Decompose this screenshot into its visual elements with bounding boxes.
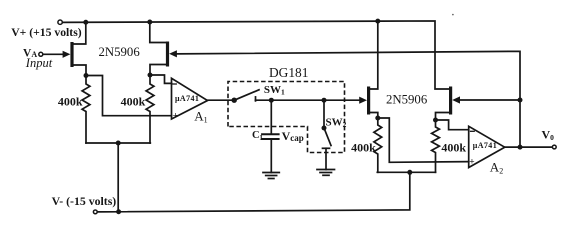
svg-text:400k: 400k (351, 140, 376, 154)
svg-text:2N5906: 2N5906 (386, 92, 428, 106)
svg-text:+: + (469, 158, 474, 168)
svg-text:V- (-15 volts): V- (-15 volts) (52, 194, 117, 208)
svg-text:+: + (173, 111, 178, 121)
svg-text:V+ (+15 volts): V+ (+15 volts) (11, 26, 82, 39)
svg-text:SW1: SW1 (264, 84, 285, 97)
svg-text:DG181: DG181 (269, 65, 308, 80)
svg-text:400k: 400k (58, 94, 83, 108)
svg-text:μA741: μA741 (175, 94, 199, 103)
svg-text:1: 1 (259, 133, 263, 142)
svg-text:A1: A1 (194, 109, 207, 125)
svg-text:400k: 400k (441, 140, 466, 154)
svg-text:μA741: μA741 (473, 141, 497, 150)
svg-text:Input: Input (25, 56, 53, 70)
svg-text:2N5906: 2N5906 (99, 45, 141, 59)
svg-text:Vcap: Vcap (282, 129, 304, 143)
svg-text:V0: V0 (542, 128, 555, 143)
svg-text:400k: 400k (121, 94, 146, 108)
svg-text:SW2: SW2 (326, 117, 347, 130)
svg-text:A2: A2 (490, 160, 503, 176)
